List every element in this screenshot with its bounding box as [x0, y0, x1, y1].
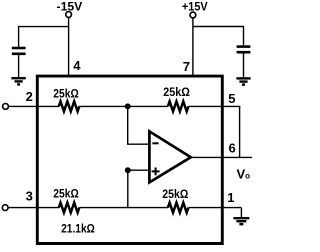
- resistor R2 25k (feedback, top right): [168, 101, 189, 111]
- wire node B down to pin3 row: [127, 170, 129, 207]
- svg-text:25kΩ: 25kΩ: [163, 85, 190, 99]
- wire op-amp output to pin 6 and Vo: [191, 156, 252, 158]
- resistor R1 25k (top left): [59, 101, 80, 111]
- resistor R3 25k (bottom left): [59, 203, 80, 213]
- op-amp minus sign: [152, 142, 158, 144]
- wire +15V to pin 7: [192, 18, 194, 75]
- node B junction dot (non-inverting input): [125, 167, 131, 173]
- ground (left): [11, 78, 25, 84]
- wire capacitor to ground: [243, 54, 245, 78]
- wire pin3 row left: [8, 207, 59, 209]
- wire branch to left bypass capacitor: [19, 27, 69, 47]
- wire node B to + input: [128, 169, 149, 171]
- capacitor C2: [237, 45, 251, 48]
- resistor R4 25k (bottom right): [168, 203, 189, 213]
- svg-text:1: 1: [227, 190, 234, 205]
- op-amp plus sign: [152, 170, 160, 172]
- svg-text:6: 6: [229, 141, 236, 156]
- wire R3 to R4: [79, 207, 168, 209]
- terminal -15V: [66, 12, 72, 18]
- wire branch to right bypass capacitor: [193, 27, 244, 46]
- svg-text:5: 5: [228, 91, 235, 106]
- ground (pin 1): [233, 218, 249, 224]
- terminal +15V: [190, 12, 196, 18]
- svg-text:4: 4: [73, 58, 81, 73]
- wire capacitor to ground: [18, 55, 20, 77]
- svg-text:2: 2: [26, 89, 33, 104]
- svg-text:+15V: +15V: [182, 0, 208, 14]
- wire -15V to pin 4: [68, 17, 70, 74]
- svg-text:25kΩ: 25kΩ: [53, 87, 79, 101]
- wire node A down to inverting input: [128, 106, 149, 144]
- svg-text:25kΩ: 25kΩ: [162, 187, 188, 201]
- svg-text:3: 3: [26, 189, 33, 204]
- svg-text:25kΩ: 25kΩ: [53, 187, 79, 201]
- svg-text:7: 7: [183, 59, 190, 74]
- wire pin 5 down to output node: [239, 106, 241, 157]
- capacitor C1: [12, 47, 26, 50]
- wire pin 1 ground stub: [240, 208, 242, 217]
- wire pin2 row left: [8, 105, 58, 107]
- ground (top right): [236, 78, 250, 84]
- terminal input pin 2: [3, 104, 9, 110]
- svg-text:Vo: Vo: [237, 166, 251, 181]
- op-amp U1: [149, 131, 190, 182]
- terminal input pin 3: [2, 205, 8, 211]
- wire R1 to node A: [79, 105, 168, 107]
- wire R4 to pin 1 ground: [189, 207, 242, 209]
- node A junction dot: [125, 103, 131, 109]
- svg-text:21.1kΩ: 21.1kΩ: [61, 221, 95, 235]
- wire R2 to pin 5 corner: [189, 105, 241, 107]
- IC package box: [37, 76, 222, 243]
